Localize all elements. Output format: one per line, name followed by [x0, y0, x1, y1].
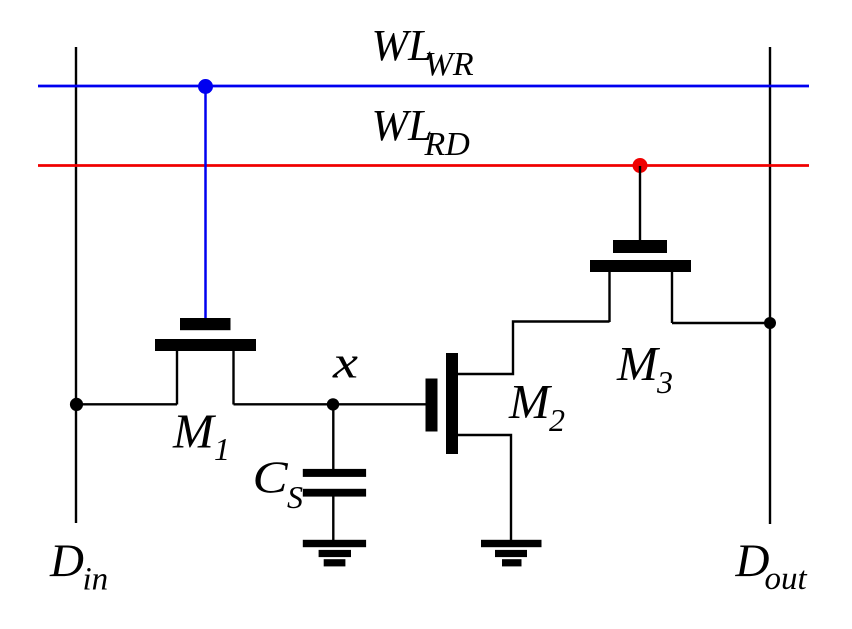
junction: dot on D_in bitline [70, 398, 83, 411]
transistor M3 channel bar [590, 260, 691, 272]
label WL_WR [372, 21, 474, 83]
wire: M1 drain leg (right) [232, 351, 234, 405]
wire: D_out bitline (right vertical) [769, 47, 771, 524]
svg-text:D: D [49, 535, 84, 587]
svg-text:WL: WL [372, 21, 433, 70]
svg-text:3: 3 [656, 364, 673, 400]
transistor M3 gate bar [613, 240, 667, 253]
junction: blue dot on WL_WR [198, 79, 213, 94]
wire: capacitor to ground [332, 496, 334, 541]
wire: M2 source leg down [458, 435, 511, 541]
transistor M2 gate bar (vertical) [426, 379, 438, 432]
svg-text:1: 1 [214, 431, 230, 467]
label CS [253, 452, 304, 515]
label M3 [616, 336, 673, 400]
capacitor CS bottom plate [303, 489, 366, 497]
label WL_RD [372, 101, 471, 163]
svg-text:M: M [616, 336, 661, 391]
svg-text:C: C [253, 452, 290, 503]
svg-text:M: M [508, 374, 553, 429]
wire: M3 left leg down [608, 272, 610, 322]
node x junction dot [327, 398, 339, 410]
wire: blue wire from WL_WR down to M1 gate [204, 86, 207, 319]
ground symbol below CS [303, 540, 366, 567]
junction: red dot on WL_RD [633, 158, 648, 173]
transistor M1 channel bar [155, 339, 256, 351]
svg-text:RD: RD [424, 126, 471, 163]
wire: WL_WR write word line (blue horizontal) [38, 85, 809, 88]
wire: node x down to storage capacitor [332, 404, 334, 470]
svg-text:M: M [172, 404, 217, 459]
label D_out [735, 535, 808, 597]
svg-text:in: in [83, 562, 109, 598]
label D_in [49, 535, 108, 598]
transistor M1 gate bar [180, 318, 231, 330]
wire: from WL_RD dot down to M3 gate [639, 166, 641, 241]
junction: dot on D_out bitline [764, 317, 776, 329]
wire: M1 source leg (left) [176, 351, 178, 405]
svg-text:WR: WR [425, 46, 474, 83]
svg-text:S: S [287, 479, 303, 515]
wire: M1 drain to node x and M2 gate [234, 403, 426, 405]
wire: M3 right leg down [671, 272, 673, 323]
svg-text:WL: WL [372, 101, 433, 150]
svg-text:out: out [765, 561, 808, 597]
capacitor CS top plate [303, 469, 366, 477]
svg-text:2: 2 [549, 402, 565, 438]
wire: D_in bitline (left vertical) [75, 47, 77, 523]
wire: D_in to M1 source [76, 403, 177, 405]
label M2 [508, 374, 565, 438]
label M1 [172, 404, 230, 468]
transistor M2 channel bar (vertical) [446, 353, 458, 454]
svg-text:x: x [332, 338, 358, 388]
wire: M3 right leg to D_out [672, 322, 770, 324]
wire: M2 drain leg up to M3 source [458, 322, 610, 375]
wire: WL_RD read word line (red horizontal) [38, 164, 809, 167]
ground symbol below M2 [481, 540, 542, 567]
